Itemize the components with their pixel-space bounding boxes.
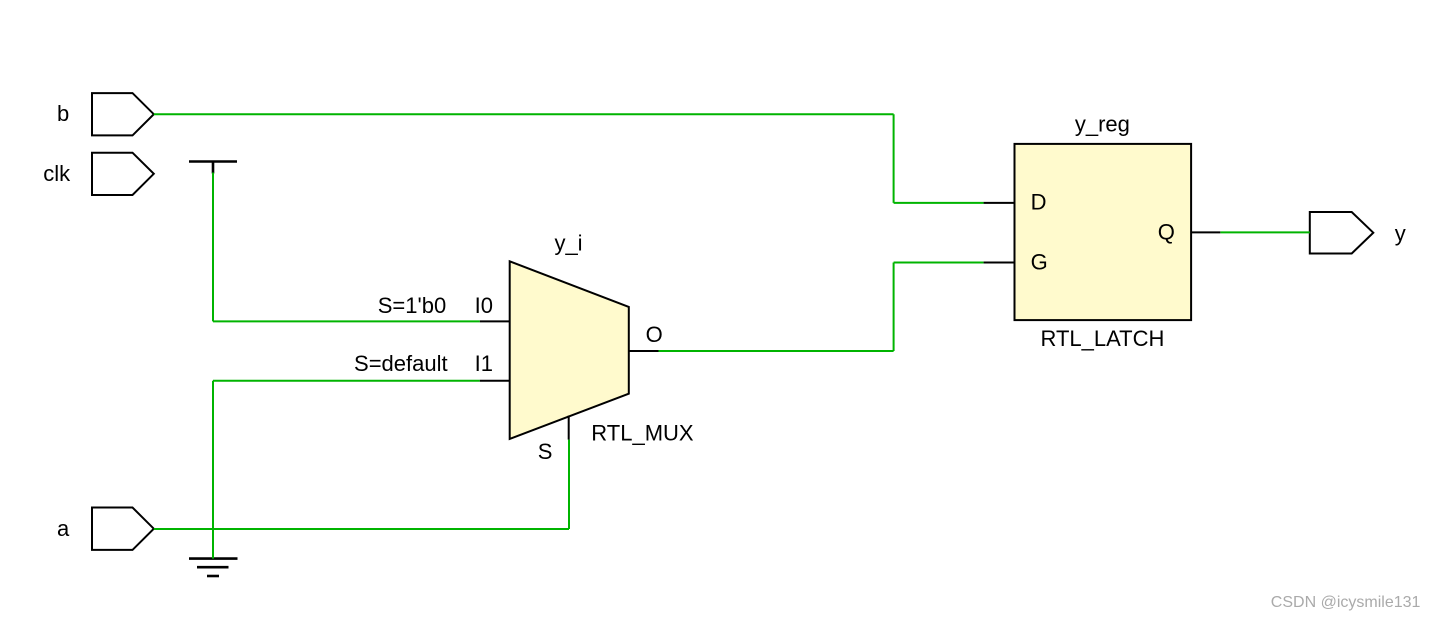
pin stub S [568, 416, 570, 440]
power symbol (constant) [189, 162, 237, 174]
svg-text:RTL_MUX: RTL_MUX [591, 421, 694, 446]
wire O: riser up to G row [893, 263, 895, 352]
svg-text:RTL_LATCH: RTL_LATCH [1041, 326, 1165, 351]
svg-text:I0: I0 [475, 293, 493, 318]
svg-text:b: b [57, 101, 69, 126]
wire net I1: horizontal run [213, 380, 480, 382]
input port clk [92, 153, 154, 195]
svg-text:S=1'b0: S=1'b0 [378, 293, 446, 318]
pin stub G [984, 262, 1015, 264]
output port y [1310, 212, 1374, 254]
svg-text:O: O [646, 322, 663, 347]
svg-text:I1: I1 [475, 351, 493, 376]
wire b: riser down to D row [893, 114, 895, 203]
svg-text:CSDN @icysmile131: CSDN @icysmile131 [1271, 594, 1421, 611]
svg-text:Q: Q [1158, 219, 1175, 244]
svg-text:S=default: S=default [354, 351, 448, 376]
svg-text:y_i: y_i [554, 230, 582, 255]
svg-text:clk: clk [43, 161, 71, 186]
pin stub I0 [480, 320, 511, 322]
wire net from power to I0: vertical drop [212, 173, 214, 322]
wire net to I0: horizontal run [213, 320, 480, 322]
wire b: into D pin [894, 202, 984, 204]
svg-text:y: y [1395, 221, 1406, 246]
wire net I1: vertical down to ground/a junction [212, 381, 214, 559]
pin stub I1 [480, 380, 511, 382]
input port a [92, 508, 154, 550]
input port b [92, 93, 154, 135]
svg-text:a: a [57, 516, 70, 541]
pin stub D [984, 202, 1015, 204]
svg-text:D: D [1031, 190, 1047, 215]
wire a: port a to S riser [154, 528, 569, 530]
wire O: mux output to riser [659, 350, 894, 352]
svg-text:S: S [538, 439, 553, 464]
svg-text:y_reg: y_reg [1075, 112, 1130, 137]
pin stub O [629, 350, 659, 352]
ground [189, 559, 238, 576]
latch y_reg body [1015, 144, 1192, 320]
svg-text:G: G [1031, 250, 1048, 275]
wire O: into G pin [894, 262, 984, 264]
mux y_i body [510, 261, 629, 439]
wire Q: latch output to port y [1220, 231, 1310, 233]
pin stub Q [1191, 231, 1220, 233]
wire a: riser up to S pin [568, 440, 570, 529]
wire b: port b to vertical riser [154, 113, 894, 115]
